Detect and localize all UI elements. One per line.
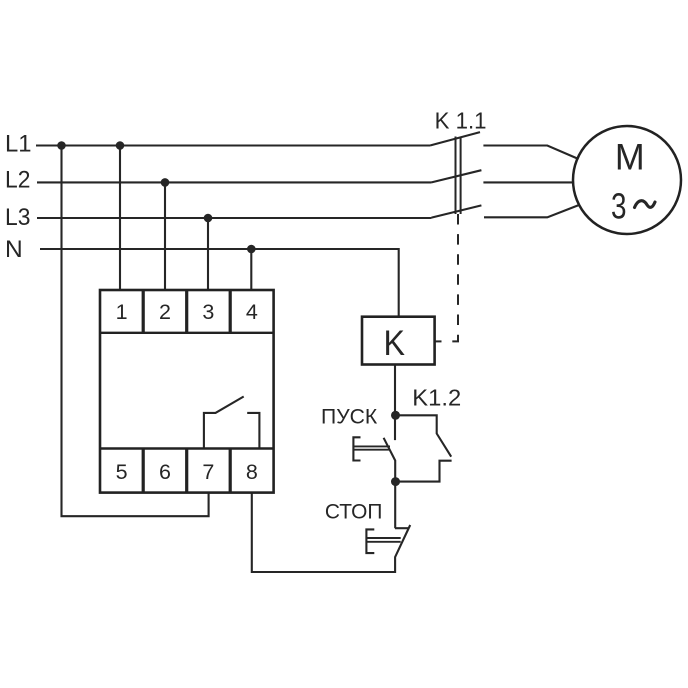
svg-text:ПУСК: ПУСК xyxy=(321,404,378,428)
svg-text:L1: L1 xyxy=(5,131,32,158)
svg-text:1: 1 xyxy=(116,300,128,324)
svg-text:K 1.1: K 1.1 xyxy=(435,108,487,134)
svg-text:5: 5 xyxy=(116,460,128,484)
svg-text:N: N xyxy=(5,236,23,263)
svg-text:4: 4 xyxy=(246,300,258,324)
svg-text:M: M xyxy=(615,136,645,177)
svg-text:L3: L3 xyxy=(5,204,30,231)
svg-text:L2: L2 xyxy=(5,167,30,194)
svg-text:7: 7 xyxy=(202,460,214,484)
svg-text:2: 2 xyxy=(159,300,171,324)
svg-text:3: 3 xyxy=(202,300,214,324)
svg-text:3: 3 xyxy=(611,186,627,227)
svg-text:СТОП: СТОП xyxy=(325,499,383,523)
svg-text:6: 6 xyxy=(159,460,171,484)
svg-text:K1.2: K1.2 xyxy=(412,385,461,411)
svg-text:K: K xyxy=(384,324,406,363)
svg-text:8: 8 xyxy=(246,460,258,484)
